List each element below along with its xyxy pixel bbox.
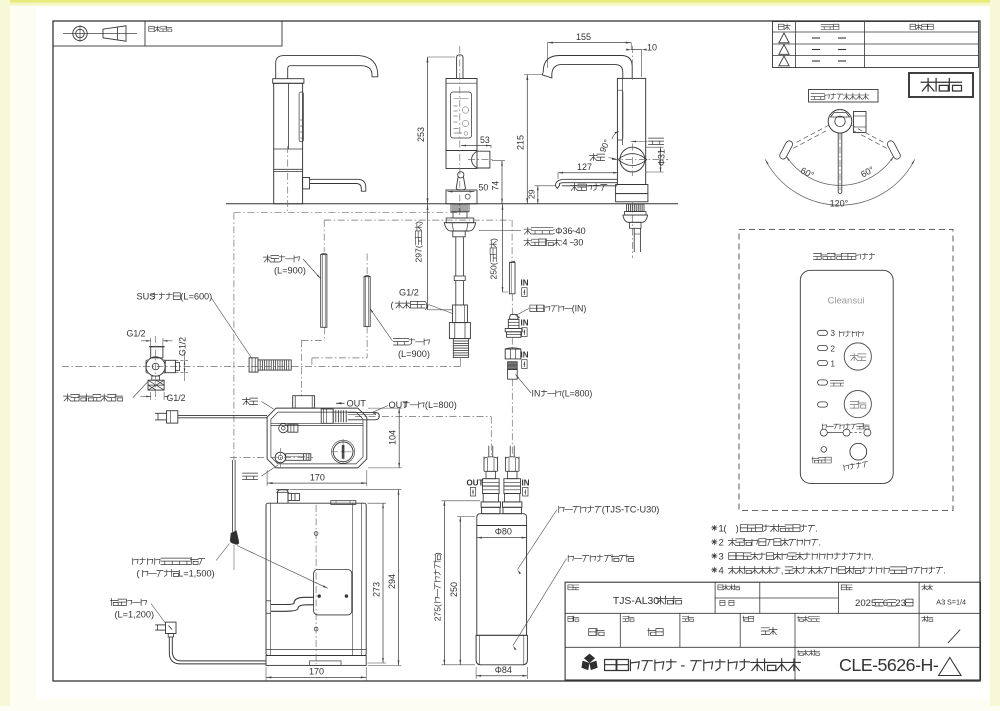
unit power cable <box>178 414 267 416</box>
panel dashed box <box>739 230 953 511</box>
power cord label <box>111 599 147 606</box>
valve body <box>146 357 165 376</box>
faucet C base <box>616 185 648 194</box>
svg-text:(: ( <box>137 569 140 579</box>
reset button <box>850 443 867 460</box>
svg-text:1: 1 <box>831 359 836 368</box>
svg-text:OUT: OUT <box>347 399 367 409</box>
copper route down <box>511 220 513 261</box>
unit front screw bottom <box>314 627 318 631</box>
faucet C display window <box>617 90 623 140</box>
dim 10 <box>631 49 642 51</box>
cable label <box>133 558 205 565</box>
svg-text:23: 23 <box>895 598 906 609</box>
svg-text:(L=800): (L=800) <box>562 389 593 399</box>
svg-text:IN: IN <box>521 279 529 288</box>
faucet B adapter <box>453 231 465 237</box>
dim phi84 <box>476 675 527 677</box>
button sansei <box>844 391 871 418</box>
revision row 2 <box>779 45 789 55</box>
cleaning led <box>821 447 827 453</box>
valve right port <box>165 360 175 372</box>
checker <box>648 628 663 635</box>
svg-text:,: , <box>781 565 784 576</box>
valve side dim G1/2 <box>178 337 188 356</box>
cleansui logo <box>828 296 865 307</box>
svg-text:120°: 120° <box>830 199 849 209</box>
svg-text:Φ84: Φ84 <box>495 665 512 675</box>
svg-text:2: 2 <box>831 344 836 353</box>
in fitting knurl <box>508 362 518 370</box>
company name <box>605 659 801 671</box>
unit top outline <box>267 408 367 468</box>
faucet C locknut <box>623 215 648 222</box>
svg-text:(L=1,200): (L=1,200) <box>115 610 155 620</box>
faucet B panel <box>451 92 472 138</box>
ac plug (top view) <box>167 411 178 423</box>
spout hose route upper <box>366 254 368 276</box>
faucet C centerline <box>631 46 633 82</box>
approver <box>761 627 777 634</box>
svg-text:10: 10 <box>647 43 657 53</box>
faucet cable drop <box>232 460 234 532</box>
dim 170 top <box>267 482 367 484</box>
dim 250 chokan <box>502 204 504 292</box>
note 2 <box>712 537 822 548</box>
faucet B top pipe <box>457 55 463 79</box>
unit out fitting <box>321 409 333 423</box>
svg-text:297(: 297( <box>414 245 424 262</box>
faucet B panel detail <box>454 98 469 100</box>
registration triangle <box>939 658 961 676</box>
fan inner arc <box>786 156 893 185</box>
dim 297 (straight pipe) <box>427 204 429 310</box>
unit left elbow <box>275 452 286 463</box>
faucet A spout <box>276 56 378 79</box>
in hose label <box>532 389 593 399</box>
fan rotated pipe right <box>887 141 900 159</box>
faucet B locknut <box>444 223 475 231</box>
svg-text:G1/2: G1/2 <box>127 329 146 339</box>
registration number <box>839 655 939 675</box>
date <box>855 598 913 609</box>
svg-text:Cleansui: Cleansui <box>828 296 865 307</box>
mitsubishi logo <box>581 654 597 671</box>
faucet A lever block <box>303 178 310 189</box>
svg-text:.: . <box>871 551 874 562</box>
label shisui (faucet C) <box>590 154 605 161</box>
unit front centerline <box>315 505 317 664</box>
coupler route gaps <box>511 294 513 314</box>
dim phi31 <box>646 146 664 148</box>
dim 155 <box>548 42 632 44</box>
copper route horizontal <box>324 219 512 221</box>
spout hose tube <box>364 277 370 327</box>
svg-text:253: 253 <box>416 127 426 142</box>
cable route horizontal <box>234 212 459 214</box>
unit top bracket <box>293 396 315 408</box>
faucet B centerline <box>459 46 461 216</box>
revision row 3 <box>779 56 789 66</box>
svg-text::: : <box>944 598 946 607</box>
fan 60 left <box>799 165 816 180</box>
svg-text:(L=900): (L=900) <box>398 349 430 359</box>
svg-text:SUS: SUS <box>137 292 156 302</box>
note 4 <box>712 565 946 576</box>
svg-text:3: 3 <box>719 551 724 562</box>
svg-text:275(: 275( <box>432 604 442 621</box>
unit drain elbow <box>279 424 288 433</box>
cartridge base cup <box>476 635 527 665</box>
label tosui (top) <box>243 473 258 479</box>
faucet B pipe joint <box>454 276 465 281</box>
drawing name <box>613 596 682 607</box>
cartridge label <box>559 505 660 515</box>
cable leader arrow <box>237 546 328 589</box>
counter top line <box>226 203 678 205</box>
unit front vent <box>331 501 356 505</box>
note 3 <box>712 551 874 562</box>
svg-text:53: 53 <box>480 135 490 145</box>
bundle slash <box>948 630 960 644</box>
svg-text:250(: 250( <box>488 262 498 279</box>
valve top dim G1/2 <box>127 329 146 339</box>
faucet A centerline <box>287 146 289 211</box>
dim 53 <box>461 145 491 147</box>
faucet B base <box>446 190 477 204</box>
faucet B straight pipe lower <box>455 281 457 305</box>
svg-text:TJS-AL30: TJS-AL30 <box>613 596 659 607</box>
in marker 1 <box>521 279 529 288</box>
faucet C drain pipe <box>555 179 617 188</box>
faucet A display window <box>299 92 303 142</box>
fan 120 <box>830 199 849 209</box>
svg-text:40: 40 <box>576 226 586 236</box>
drain hose label <box>264 255 300 262</box>
label OUT (cartridge) <box>467 479 484 488</box>
dim 50 <box>448 191 475 193</box>
cartridge exchange label <box>822 423 869 429</box>
label drain pipe (faucet C) <box>571 184 607 191</box>
led 1 <box>818 360 828 365</box>
drain hose route <box>324 328 326 341</box>
svg-text:): ) <box>414 221 424 224</box>
led acid <box>818 402 828 407</box>
svg-text:IN: IN <box>522 479 530 488</box>
faucet B body <box>446 79 477 151</box>
unit top band <box>271 422 363 424</box>
faucet chain tail <box>459 358 461 367</box>
svg-text:2: 2 <box>719 537 724 548</box>
label 90deg <box>597 138 612 154</box>
copper pipe stub <box>509 262 515 293</box>
svg-text:(: ( <box>391 300 394 310</box>
dim 275 cartridge <box>443 501 445 665</box>
svg-text:IN: IN <box>521 351 529 360</box>
svg-text:294: 294 <box>387 574 397 589</box>
spout hose route lower <box>366 327 368 358</box>
fan pivot <box>828 110 852 134</box>
faucet C valve circle <box>620 147 645 172</box>
in marker 3 <box>521 351 529 360</box>
coupler route lower <box>511 379 513 456</box>
svg-text:74: 74 <box>490 181 500 191</box>
svg-text:L=1,500): L=1,500) <box>178 569 215 579</box>
faucet B mid section <box>446 151 477 169</box>
svg-text:OUT: OUT <box>467 479 484 488</box>
faucet B lever <box>458 172 464 178</box>
drafter <box>589 628 604 635</box>
led josui <box>818 380 828 385</box>
svg-text:Φ31: Φ31 <box>657 149 667 166</box>
faucet C adapter <box>630 222 642 228</box>
dim 215 <box>526 75 528 204</box>
dim 253 <box>427 57 429 204</box>
label arrow OUT <box>347 399 367 409</box>
dim 170 bottom <box>266 676 366 678</box>
revision table grid <box>773 22 979 68</box>
svg-text:2025: 2025 <box>855 598 876 609</box>
label IN (cartridge) <box>522 479 530 488</box>
main supply line <box>62 366 460 368</box>
in fitting hex <box>505 349 521 359</box>
faucet C under-counter shank <box>627 204 645 212</box>
svg-text:29: 29 <box>526 189 536 199</box>
svg-text:155: 155 <box>576 32 591 42</box>
fan rotated pipe left <box>780 141 793 159</box>
finish symbol box <box>53 21 282 46</box>
svg-text:): ) <box>736 523 739 534</box>
valve centerline <box>155 336 157 400</box>
faucet C washer <box>624 212 646 216</box>
valve bottom stem <box>152 376 160 380</box>
svg-text:IN: IN <box>532 389 541 399</box>
faucet C body <box>617 78 645 184</box>
svg-text:G1/2: G1/2 <box>399 288 419 298</box>
svg-text:104: 104 <box>388 430 398 445</box>
faucet B washer <box>446 218 474 223</box>
label haisui (top) <box>243 398 258 405</box>
faucet A body <box>274 83 303 204</box>
svg-text:(TJS-TC-U30): (TJS-TC-U30) <box>602 505 660 515</box>
rotation label box <box>809 90 879 103</box>
dim 273 <box>382 503 384 663</box>
title labels <box>568 585 579 590</box>
svg-text::4: :4 <box>560 238 568 248</box>
led 2 <box>818 345 828 350</box>
cartridge IN connector <box>509 446 511 457</box>
svg-text:IN: IN <box>521 319 529 328</box>
dim 127 <box>558 172 618 174</box>
faucet B threaded shank <box>451 204 469 212</box>
reference-figure stamp <box>909 73 973 97</box>
valve bottom nut <box>148 380 164 390</box>
scale <box>936 598 966 607</box>
out hose label <box>389 400 457 410</box>
svg-text::Φ36: :Φ36 <box>553 226 573 236</box>
label tosui (faucet C) <box>649 138 664 144</box>
svg-text:50: 50 <box>479 182 489 192</box>
unit front base <box>266 649 366 651</box>
svg-text:.: . <box>819 537 822 548</box>
cartridge tray label <box>568 555 633 562</box>
valve top port <box>151 347 163 358</box>
faucet B shank neck <box>453 212 467 218</box>
drain route upper <box>323 220 325 252</box>
power plug front <box>166 622 177 633</box>
check valve label <box>399 288 419 298</box>
cartridge body <box>477 526 527 636</box>
out hose route <box>355 416 491 418</box>
svg-text:30: 30 <box>573 238 583 248</box>
valve label <box>64 394 123 401</box>
svg-text:G1/2: G1/2 <box>167 393 186 403</box>
svg-text:250: 250 <box>449 582 459 597</box>
unit front screw top <box>314 532 318 536</box>
svg-text:(L=900): (L=900) <box>274 266 306 276</box>
title block grid <box>565 582 980 680</box>
note 1 <box>712 523 818 534</box>
svg-text:): ) <box>488 238 498 241</box>
faucet C tail pipe <box>633 228 635 252</box>
faucet C spout <box>543 56 632 79</box>
unit front panel <box>314 570 352 615</box>
svg-text:127: 127 <box>577 162 592 172</box>
revision table headers <box>778 24 790 30</box>
svg-text:170: 170 <box>309 667 324 677</box>
projection symbol <box>63 33 137 35</box>
svg-text:S=1/4: S=1/4 <box>947 598 966 607</box>
panel outline <box>800 270 893 483</box>
sus flex corrugation <box>258 360 291 370</box>
power cord path <box>169 637 266 664</box>
unit top centerlines <box>230 457 313 459</box>
cartridge exchange leds <box>820 429 827 436</box>
dim 294 <box>398 490 400 666</box>
cable route vertical <box>233 213 235 460</box>
faucet B knob <box>477 151 490 168</box>
cartridge cap <box>477 514 527 526</box>
svg-text:CLE-5626-H-: CLE-5626-H- <box>839 655 939 675</box>
button in-yo <box>844 343 871 370</box>
svg-text:273: 273 <box>372 582 382 597</box>
fan 60 right <box>859 164 876 179</box>
drain hose tube <box>321 255 327 328</box>
unit front top elbow <box>278 490 289 504</box>
sus flex label <box>137 292 213 302</box>
svg-text:Φ80: Φ80 <box>495 527 512 537</box>
valve bottom dim G1/2 <box>167 393 186 403</box>
check valve body <box>453 305 468 323</box>
dim 74 <box>501 161 503 204</box>
finish symbol label <box>149 26 172 32</box>
in fitting lower <box>508 370 518 380</box>
revision row 1 <box>779 33 789 43</box>
faucet A drain lever <box>310 179 366 191</box>
spout hose label <box>394 338 430 345</box>
unit cap circle <box>333 442 353 462</box>
panel title <box>814 253 875 260</box>
fan straight pipe <box>837 133 839 193</box>
svg-text:.: . <box>943 565 946 576</box>
sus flex hex <box>249 358 258 372</box>
check valve hex <box>449 323 470 339</box>
faucet A body cap <box>273 79 304 84</box>
dim phi80 <box>477 537 527 539</box>
svg-text:(L=600): (L=600) <box>180 292 212 302</box>
svg-text:(L=800): (L=800) <box>425 400 457 410</box>
svg-text:OUT: OUT <box>389 400 409 410</box>
svg-text:215: 215 <box>516 135 526 150</box>
led 3 alkali <box>818 330 828 335</box>
svg-text:(IN): (IN) <box>572 304 587 314</box>
fan outer arc <box>765 159 915 205</box>
check valve threads <box>453 339 468 358</box>
svg-text:.: . <box>815 523 818 534</box>
cartridge OUT connector <box>488 446 490 457</box>
svg-text:3: 3 <box>831 329 836 338</box>
copper coupler <box>510 315 518 320</box>
dim 104 <box>398 408 400 468</box>
svg-text:170: 170 <box>310 472 325 482</box>
finish symbol divider <box>144 21 146 46</box>
mounting note <box>524 226 586 236</box>
dim 250 cartridge <box>459 517 461 665</box>
unit front outline <box>266 503 366 655</box>
dim 29 <box>537 186 539 204</box>
svg-text:G1/2: G1/2 <box>178 337 188 356</box>
svg-text:4: 4 <box>719 565 724 576</box>
in marker 2 <box>521 319 529 328</box>
copper coupler label <box>530 304 587 314</box>
unit out hose <box>348 412 380 419</box>
unit front cable <box>271 597 314 604</box>
faucet B straight pipe upper <box>455 237 457 276</box>
